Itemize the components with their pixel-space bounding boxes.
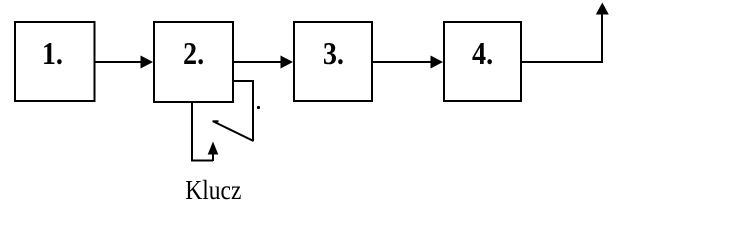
svg-text:4.: 4.: [472, 35, 493, 71]
svg-text:2.: 2.: [183, 35, 204, 71]
block 1: [15, 22, 95, 101]
wire block2 bottom to switch contact: [192, 102, 213, 161]
output wire arrow from block4 up: [522, 3, 609, 63]
stray dot: [257, 106, 260, 109]
wire arrow block2 to block3: [234, 56, 293, 69]
svg-text:Klucz: Klucz: [185, 175, 241, 203]
wire arrow block1 to block2: [95, 56, 153, 69]
wire block2 right side to switch pivot: [234, 81, 253, 141]
switch contact up arrow: [208, 142, 219, 162]
svg-text:3.: 3.: [323, 35, 344, 71]
block 4: [444, 22, 521, 101]
svg-text:1.: 1.: [42, 35, 63, 71]
block 2: [154, 22, 233, 102]
block 3: [294, 22, 372, 101]
switch blade: [213, 121, 254, 141]
wire arrow block3 to block4: [373, 56, 443, 69]
